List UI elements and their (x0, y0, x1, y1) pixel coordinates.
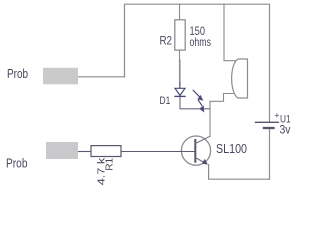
svg-text:SL100: SL100 (216, 141, 247, 156)
svg-text:+: + (274, 111, 279, 121)
svg-text:R1: R1 (105, 157, 116, 170)
svg-text:R2: R2 (160, 36, 173, 48)
svg-text:Prob: Prob (7, 67, 28, 81)
svg-text:3v: 3v (280, 123, 291, 137)
svg-text:D1: D1 (160, 95, 171, 107)
svg-text:Prob: Prob (6, 157, 28, 171)
svg-text:ohms: ohms (190, 35, 212, 49)
